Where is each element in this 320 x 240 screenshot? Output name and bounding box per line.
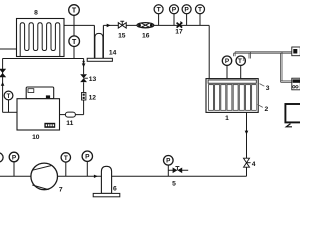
wire [73,16,75,59]
gauge T [69,36,80,47]
chiller 10 [17,87,60,130]
wire [3,58,84,60]
gauge P [222,56,231,65]
gauge T [154,5,163,14]
gauge T [196,5,205,14]
cable to data logger [234,52,292,83]
svg-text:P: P [166,158,171,165]
wire [8,100,10,112]
wire [0,175,247,177]
svg-text:P: P [172,7,177,14]
svg-text:2: 2 [265,106,269,113]
svg-text:10: 10 [32,134,40,141]
flow arrow [1,82,5,86]
computer monitor [285,104,302,127]
gauge P [9,152,19,162]
svg-text:P: P [225,58,230,65]
svg-text:14: 14 [109,49,117,56]
svg-text:1: 1 [242,57,244,61]
data logger box [292,47,301,56]
svg-text:15: 15 [118,32,126,39]
filter 11 [65,112,75,117]
svg-text:T: T [238,58,242,65]
gauge P [170,5,179,14]
svg-text:11: 11 [66,120,73,127]
filter 6 [93,166,120,196]
svg-text:3: 3 [266,85,270,92]
wire [14,162,168,177]
svg-text:7: 7 [59,187,63,194]
sight glass 12 [82,93,86,101]
svg-text:8: 8 [34,10,38,17]
valve 17 [177,22,183,28]
label 3 [260,84,270,92]
valve 4 [244,158,251,167]
wire [60,114,66,116]
svg-text:T: T [72,8,77,15]
svg-text:T: T [157,7,161,14]
svg-text:P: P [184,7,189,14]
wire [208,25,210,79]
svg-text:12: 12 [89,94,97,101]
flow arrow [94,175,98,178]
flow arrow [82,61,86,68]
wire [246,112,248,176]
gauge T [4,91,13,100]
test radiator 1 [206,79,258,113]
label 2 [257,104,268,113]
svg-text:5: 5 [172,180,176,187]
wire [168,169,188,171]
flow arrow [245,131,249,135]
gauge P cut at edge [0,153,3,162]
svg-text:17: 17 [175,29,183,36]
wire [103,24,209,26]
svg-text:T: T [72,39,77,46]
flow arrow [107,24,111,28]
svg-text:P: P [12,154,17,161]
wire [227,65,241,80]
wire [3,111,18,113]
wire [64,24,94,26]
gauge T [69,5,80,16]
wire [2,59,4,113]
vessel 14 [87,25,112,61]
svg-text:T: T [64,155,68,162]
valve 9 cut at edge [0,69,6,77]
svg-text:16: 16 [142,32,150,39]
svg-text:4: 4 [252,161,256,168]
heat exchanger 8 [17,19,65,57]
svg-text:1: 1 [225,115,229,122]
wire [0,48,17,50]
svg-text:13: 13 [89,76,97,83]
gauge P [182,5,191,14]
valve 13 [80,74,88,82]
valve 5 [173,167,183,174]
wire [159,14,200,26]
gauge T [61,153,70,162]
wire [75,59,83,115]
valve 15 [118,21,126,28]
gauge P [164,156,174,166]
gauge P [82,151,92,161]
compressor 7 [31,163,58,190]
gauge T1 [236,56,245,65]
svg-text:P: P [85,154,90,161]
power supply box [292,78,301,90]
svg-text:T: T [7,94,11,100]
svg-text:6: 6 [113,186,117,193]
flow meter 16 [137,23,154,28]
svg-text:T: T [198,7,202,14]
